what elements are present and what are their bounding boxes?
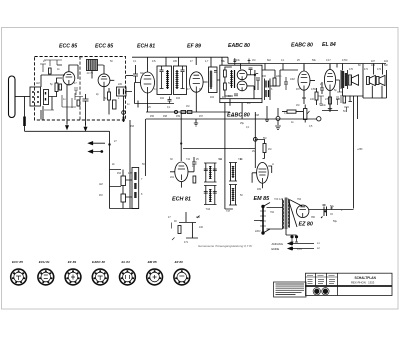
V1a anode/cathode wires	[67, 65, 78, 120]
T7 coil tick	[232, 166, 234, 178]
svg-text:EM 85: EM 85	[148, 260, 157, 264]
title block frame	[305, 273, 392, 295]
wire antenna feed down	[24, 97, 26, 132]
grid cap C11	[192, 157, 197, 164]
wire input box to V1a grid	[43, 97, 57, 120]
trimmer node circle	[174, 110, 177, 113]
cap C9 under detector	[276, 117, 280, 121]
svg-text:762: 762	[270, 211, 275, 214]
triode V5 EABC80	[298, 71, 310, 90]
wire S1 bottom	[110, 208, 139, 210]
detector cap plates	[234, 68, 258, 96]
detector enclosure box	[220, 65, 262, 102]
V4b electrodes	[239, 85, 244, 91]
svg-text:0,5M: 0,5M	[311, 88, 316, 91]
wire selector to transformer	[267, 208, 283, 230]
V7 wires	[252, 173, 262, 188]
svg-text:ECH 81: ECH 81	[39, 260, 50, 264]
svg-text:30p: 30p	[140, 72, 145, 75]
resistor R15	[273, 78, 276, 86]
T7 lower winding marks	[232, 189, 235, 201]
resistor R12	[193, 176, 196, 183]
node dot dial	[108, 143, 110, 145]
coil L5	[121, 194, 126, 202]
svg-text:469: 469	[257, 188, 262, 191]
V2 wires	[135, 65, 148, 112]
mains leads	[263, 203, 270, 234]
T6 upper plates	[204, 169, 217, 171]
node tick	[137, 101, 139, 108]
wire to ECH81 grid	[126, 75, 133, 77]
svg-text:474: 474	[377, 68, 382, 71]
small parts inside FM box row	[40, 60, 83, 110]
svg-text:50µ: 50µ	[330, 205, 335, 208]
top rail right	[228, 64, 386, 72]
svg-text:EABC 80: EABC 80	[291, 43, 313, 49]
detector box inner bottom rule	[220, 98, 262, 100]
V8 wires	[309, 209, 354, 211]
FM box stage divider dashed	[79, 57, 81, 121]
socket base EL84	[120, 269, 136, 285]
antenna input coil box L1	[30, 87, 41, 106]
IF transformer T2 box b	[174, 66, 187, 95]
ratio detector transformer T4	[265, 79, 271, 101]
svg-text:404: 404	[384, 60, 389, 63]
svg-text:EZ 80: EZ 80	[299, 222, 313, 228]
wire antenna to input box	[15, 96, 30, 98]
T2a cap plates	[160, 66, 164, 89]
T2b coil ticks	[176, 72, 179, 88]
AVC bus wire y119	[146, 118, 317, 120]
maker logo rings	[313, 287, 330, 295]
tube V3 EF89	[190, 72, 204, 92]
resistor R7	[224, 70, 227, 77]
svg-text:763 12: 763 12	[274, 197, 282, 201]
ground pin arrows under FM box	[65, 121, 87, 131]
svg-text:50µ: 50µ	[333, 220, 338, 223]
AM bus wire y112	[146, 111, 230, 113]
T2b coil	[176, 70, 178, 89]
svg-text:AM: AM	[36, 82, 40, 85]
svg-text:ECH 81: ECH 81	[137, 44, 155, 50]
svg-text:201: 201	[170, 176, 175, 179]
svg-text:EM 85: EM 85	[254, 196, 271, 202]
V5 wires	[304, 65, 315, 99]
resistor R2	[108, 92, 111, 100]
shielded cable marker	[23, 117, 26, 127]
svg-text:6,3V: 6,3V	[297, 248, 302, 251]
node dot B+	[324, 210, 326, 212]
wire midline to detector	[183, 148, 255, 150]
filter cap C13	[321, 205, 327, 218]
svg-text:462: 462	[160, 97, 165, 100]
svg-text:764: 764	[297, 198, 302, 201]
svg-text:457: 457	[199, 115, 204, 118]
dial scale line 2	[288, 247, 314, 250]
svg-text:453: 453	[130, 125, 135, 128]
V8 electrodes	[300, 207, 306, 218]
svg-text:ANFANG: ANFANG	[272, 242, 284, 246]
resistor R1	[55, 83, 58, 92]
detector interior coil strokes	[232, 70, 235, 88]
V3 electrodes	[193, 75, 200, 92]
svg-text:m: m	[272, 163, 274, 166]
svg-text:1M: 1M	[296, 104, 299, 107]
T1 windings	[119, 89, 124, 95]
dial lamp arrow 1	[89, 142, 106, 145]
tube V2 ECH81	[141, 72, 155, 93]
power transformer T8 primary coil	[282, 199, 284, 229]
resistor R13	[178, 226, 181, 234]
T7 upper winding marks	[232, 167, 235, 177]
tube V6 EL84	[324, 69, 335, 90]
svg-text:471: 471	[184, 241, 189, 244]
osc sub-circuit wires	[179, 212, 198, 238]
pickup jack circle	[253, 137, 257, 141]
coil L2 core	[44, 90, 49, 105]
svg-text:467: 467	[296, 88, 301, 91]
title block heavy base line	[305, 285, 392, 287]
wire osc drop	[180, 112, 182, 161]
coupling node circle	[317, 117, 321, 121]
osc ticks	[172, 216, 200, 241]
resistor R18	[59, 84, 62, 90]
wire band switch vertical 2	[129, 120, 131, 209]
triode V1b ECC85	[98, 74, 110, 87]
wire bottom bus	[25, 130, 110, 132]
screen parts cluster	[318, 80, 349, 112]
top rail wire	[132, 57, 228, 67]
T7 lower coil tick	[232, 188, 234, 201]
coil L3	[113, 100, 117, 109]
svg-text:EF 89: EF 89	[187, 44, 201, 50]
V4a electrodes	[239, 73, 244, 79]
wire C1 to V1b	[78, 65, 104, 79]
V2 electrodes	[144, 76, 152, 94]
stamp text lines	[276, 284, 305, 295]
svg-text:455: 455	[128, 172, 133, 175]
IF transformer T6 lower	[204, 186, 217, 205]
wire band switch vertical 3	[144, 119, 146, 176]
LS1 cone	[352, 75, 359, 86]
T2a coil ticks	[166, 72, 169, 88]
svg-text:463: 463	[176, 97, 181, 100]
svg-text:ECH 81: ECH 81	[172, 197, 191, 203]
T6 upper coil ticks	[209, 166, 211, 179]
svg-text:742: 742	[206, 207, 211, 211]
V6 wires	[330, 64, 340, 97]
svg-text:220p: 220p	[276, 75, 282, 78]
speaker drop wires	[372, 64, 386, 99]
pot wiper arrow	[307, 111, 310, 114]
tuning gang capacitor C1 block	[87, 60, 98, 71]
T3a cap	[214, 71, 217, 73]
svg-text:465: 465	[222, 96, 227, 99]
dial lamp blob	[100, 150, 103, 153]
svg-text:747: 747	[226, 210, 231, 213]
resistor R6	[187, 111, 192, 114]
V2b wires	[170, 164, 194, 188]
tube socket diagrams row	[11, 269, 190, 285]
V1b wires	[104, 65, 114, 101]
wire R1 to grid	[57, 78, 63, 97]
svg-text:270: 270	[325, 98, 330, 101]
svg-text:741: 741	[186, 158, 191, 161]
svg-text:125: 125	[336, 98, 341, 101]
svg-text:ECC 85: ECC 85	[12, 260, 23, 264]
output transformer T5 primary (hatched)	[342, 71, 345, 88]
resistor R17	[49, 68, 52, 74]
C13 plus mark	[330, 207, 333, 215]
wire det to EABC triode	[262, 70, 298, 86]
resistor R5	[181, 111, 186, 114]
svg-text:220V: 220V	[255, 230, 261, 233]
svg-text:100: 100	[310, 98, 315, 101]
svg-text:8k2: 8k2	[267, 59, 272, 62]
triode V1a ECC85	[63, 72, 75, 85]
wire left column in box	[41, 65, 65, 120]
cathode resistor R11	[329, 97, 332, 104]
T6 upper winding marks	[209, 167, 212, 179]
resistor R10	[315, 92, 318, 100]
svg-text:1M: 1M	[252, 59, 255, 62]
LS3 cone	[379, 75, 385, 85]
T2b cap plates	[181, 66, 185, 89]
svg-text:350: 350	[311, 216, 316, 219]
node dot	[180, 142, 182, 144]
IF transformer T6 upper	[204, 163, 217, 182]
socket base EABC80	[92, 269, 108, 285]
svg-text:100: 100	[371, 64, 376, 67]
wire EL84 bottom region	[322, 96, 352, 111]
pot wires	[304, 105, 306, 123]
svg-text:+250: +250	[357, 148, 363, 151]
svg-text:5M: 5M	[263, 137, 266, 140]
ground G1	[194, 119, 198, 126]
T8 anode lead diagonal	[289, 200, 302, 207]
svg-text:25µ: 25µ	[240, 122, 245, 125]
trimmer circle C3	[122, 111, 126, 115]
V1a electrodes	[66, 75, 73, 85]
svg-text:472: 472	[364, 68, 369, 71]
cap C8 under detector	[265, 106, 269, 122]
grid cap C6	[133, 65, 138, 83]
dipole antenna A1	[9, 76, 16, 118]
svg-text:4700: 4700	[342, 59, 348, 62]
svg-text:EL 84: EL 84	[322, 42, 336, 48]
svg-text:ENDE: ENDE	[272, 247, 280, 251]
T8 diagonal stroke	[288, 199, 297, 228]
AGC segment wire	[137, 103, 175, 105]
IF transformer T3 box a	[209, 67, 218, 93]
svg-text:454: 454	[117, 172, 122, 175]
cathode ground	[328, 104, 332, 112]
T6 lower plates	[204, 192, 217, 194]
svg-text:2M: 2M	[247, 102, 250, 105]
oscillator tube V2b ECH81	[175, 162, 188, 182]
LS1 coil hatch	[348, 77, 351, 83]
diode section V4a EABC80	[237, 70, 247, 80]
wire speaker frame	[343, 64, 387, 99]
resistor R8	[224, 83, 227, 90]
B+ vertical wire	[354, 96, 358, 209]
IF transformer T7 upper	[229, 163, 237, 182]
svg-text:10n: 10n	[322, 104, 327, 107]
extra value smudges	[36, 60, 389, 250]
svg-text:200: 200	[196, 216, 201, 219]
V2b electrodes	[178, 166, 185, 180]
svg-text:EABC 80: EABC 80	[228, 43, 250, 49]
svg-text:458: 458	[163, 115, 168, 118]
loudspeaker LS2 coil	[367, 77, 370, 85]
svg-text:AM: AM	[99, 183, 103, 186]
resistor R3	[77, 100, 80, 106]
svg-text:Gemessene Tonausgangsleistung: Gemessene Tonausgangsleistung 0,7 W	[198, 244, 253, 248]
volume pot R9	[304, 109, 307, 120]
magic eye V7 EM85	[257, 162, 269, 183]
wire IF line vertical	[225, 153, 233, 209]
IF transformer T7 lower	[229, 185, 237, 206]
svg-text:470: 470	[349, 68, 354, 71]
selector terminals	[261, 205, 264, 208]
scattered component value labels	[43, 56, 388, 251]
V5 electrodes	[301, 75, 308, 91]
svg-text:REX-PHON 1353: REX-PHON 1353	[351, 281, 375, 285]
heater wires bottom	[254, 221, 297, 236]
remark stamp box	[274, 282, 307, 297]
T8 core	[285, 198, 287, 230]
wire IF to detector	[217, 80, 225, 153]
wire coil links	[110, 170, 133, 209]
T6 lower coil ticks	[209, 189, 211, 202]
dial scale line 1	[288, 242, 314, 245]
socket base ECC85	[11, 269, 27, 285]
riser caps above rail	[233, 58, 250, 65]
svg-text:EABC 80: EABC 80	[92, 260, 105, 264]
title block vertical dividers	[316, 273, 338, 295]
C3 lower mark	[123, 117, 125, 122]
coil L4	[121, 176, 126, 186]
svg-text:1M: 1M	[186, 105, 189, 108]
T5 secondary (hatched)	[345, 73, 347, 86]
V1b electrodes	[101, 77, 107, 87]
svg-text:744: 744	[218, 158, 223, 161]
loudspeaker LS1 coil	[348, 75, 351, 85]
T5 frame	[341, 70, 348, 89]
wire AVC drop to eye	[254, 112, 256, 168]
svg-text:2M: 2M	[252, 150, 255, 153]
V7 bracket	[268, 166, 272, 173]
svg-text:0,47: 0,47	[326, 59, 331, 62]
svg-text:40 70: 40 70	[87, 71, 94, 75]
V7 target screens	[259, 169, 267, 183]
V3 wires	[196, 82, 207, 112]
cap C15	[168, 97, 172, 104]
socket base EF89	[65, 269, 81, 285]
svg-text:ECC 85: ECC 85	[59, 44, 77, 50]
T8 secondary coil	[288, 200, 290, 228]
cap C14	[284, 77, 288, 90]
resistor R14	[263, 144, 266, 153]
svg-text:180: 180	[173, 60, 178, 63]
wire T1 right into chassis	[124, 92, 133, 123]
cathode parts V5	[302, 88, 317, 105]
coil L2 dots	[33, 91, 46, 103]
svg-text:SCHALTPLAN: SCHALTPLAN	[355, 276, 377, 280]
svg-text:EL 84: EL 84	[122, 260, 130, 264]
LS2 cone	[369, 75, 375, 85]
svg-text:100: 100	[199, 226, 204, 229]
svg-text:10M: 10M	[290, 78, 295, 81]
svg-text:EF 89: EF 89	[68, 260, 77, 264]
resistor R16	[343, 96, 346, 103]
FM IF output transformer T1	[117, 87, 127, 96]
title block mid rule	[306, 276, 338, 278]
C1 plates	[88, 60, 96, 71]
detector small wires	[225, 67, 260, 119]
T4 winding ticks	[266, 81, 269, 98]
svg-text:1M: 1M	[268, 148, 271, 151]
svg-text:464: 464	[210, 96, 215, 99]
IF transformer T2 box a	[157, 66, 172, 95]
cap C12 dots under transformer	[290, 235, 293, 238]
T6 lower winding marks	[209, 190, 212, 202]
T3a coil ticks	[210, 72, 213, 86]
band switch S1 frame	[132, 168, 139, 209]
R19 leads	[282, 111, 303, 113]
svg-text:ECC 85: ECC 85	[95, 44, 113, 50]
svg-text:459: 459	[176, 115, 181, 118]
trimmer capacitor C2	[83, 94, 89, 120]
dial lamp arrow 2	[89, 150, 102, 153]
rectifier V8 EZ80	[297, 205, 309, 217]
detector node dot	[254, 74, 256, 76]
R14 wires	[256, 140, 265, 159]
svg-text:746: 746	[238, 158, 243, 161]
FM tuner dashed enclosure	[35, 57, 126, 121]
interior coil ticks	[230, 72, 233, 86]
svg-text:EZ 80: EZ 80	[175, 260, 184, 264]
svg-text:468: 468	[255, 114, 260, 117]
socket base EZ80	[174, 269, 190, 285]
wire R2 down	[108, 88, 110, 115]
resistor R19 horizontal	[287, 110, 296, 113]
V6 electrodes	[327, 74, 333, 91]
loudspeaker LS3 coil	[376, 77, 379, 85]
title block small cell texts	[307, 275, 335, 283]
diode section V4b EABC80	[237, 81, 247, 91]
svg-text:456: 456	[150, 115, 155, 118]
svg-text:FM: FM	[99, 194, 102, 197]
svg-text:407: 407	[371, 60, 376, 63]
mains voltage selector bar	[262, 206, 264, 234]
wire V1a cathode pin below box	[67, 120, 86, 126]
T3a coil	[210, 71, 212, 90]
socket base EM85	[147, 269, 163, 285]
svg-text:466: 466	[262, 75, 267, 78]
socket base ECH81	[38, 269, 54, 285]
T2a coil	[167, 70, 169, 89]
svg-text:220: 220	[118, 83, 123, 86]
coupling cap C10	[320, 82, 324, 94]
wire band switch vertical 1	[109, 131, 111, 208]
S1 contacts dark	[134, 172, 136, 198]
